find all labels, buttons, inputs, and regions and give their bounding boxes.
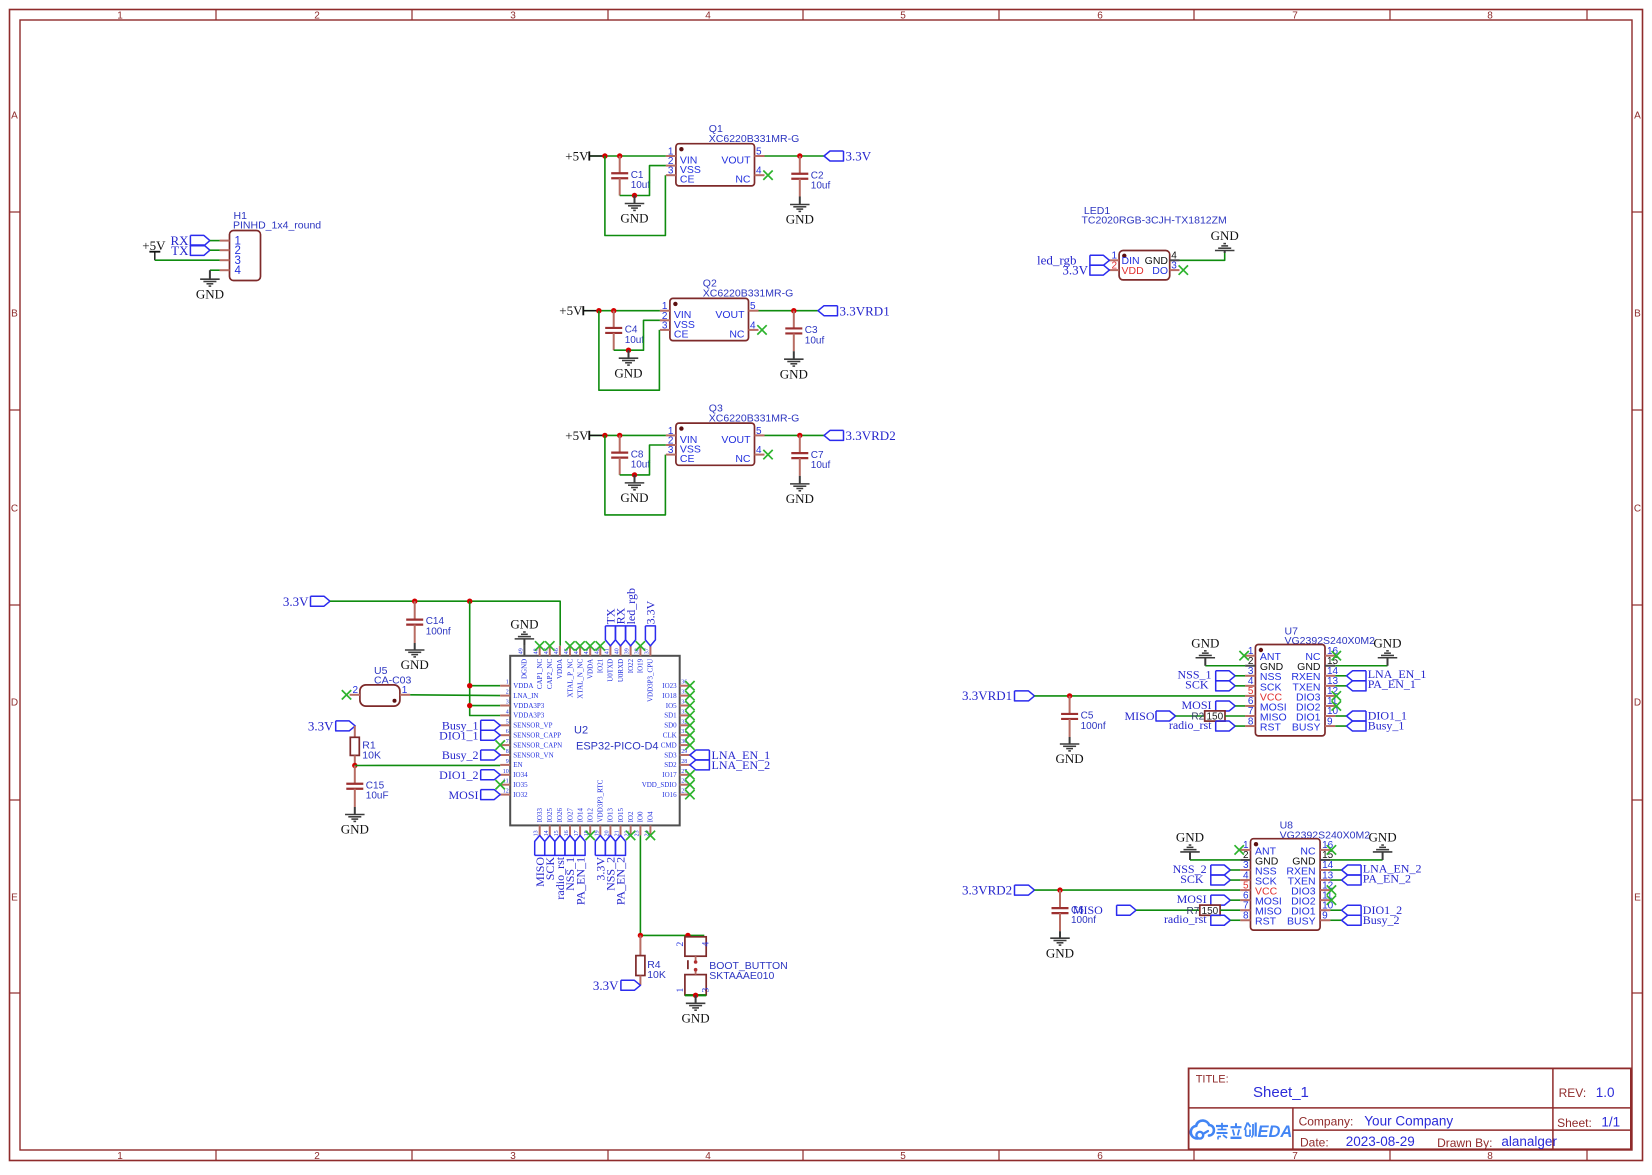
rgb led LED1 TC2020RGB-3CJH-TX1812ZM	[1082, 205, 1227, 280]
svg-text:MOSI: MOSI	[448, 788, 478, 802]
svg-text:GND: GND	[1373, 635, 1401, 650]
wire C8 to VSS riser	[620, 445, 666, 475]
svg-text:3: 3	[510, 1151, 516, 1162]
svg-text:VDD3P3_CPU: VDD3P3_CPU	[647, 659, 655, 702]
ground at U8 pin 15	[1369, 830, 1397, 860]
microcontroller U2 ESP32-PICO-D4	[500, 646, 690, 837]
svg-text:3: 3	[702, 988, 712, 993]
ground at U8 pin 2	[1176, 830, 1204, 860]
svg-text:D: D	[11, 698, 18, 709]
svg-text:10uf: 10uf	[631, 459, 651, 470]
svg-text:REV:: REV:	[1559, 1086, 1587, 1100]
svg-text:IO26: IO26	[556, 808, 564, 823]
svg-text:SKTAAAE010: SKTAAAE010	[709, 970, 774, 982]
capacitor C14 100nf	[406, 601, 451, 643]
svg-text:PA_EN_1: PA_EN_1	[1368, 677, 1416, 691]
no-connect U2 pin 48	[535, 641, 544, 650]
svg-text:SENSOR_VP: SENSOR_VP	[513, 722, 552, 730]
regulator Q2 XC6220B331MR-G	[660, 278, 793, 341]
no-connect U2 pin 33	[685, 711, 694, 720]
net flag TX at U2 top	[604, 608, 618, 646]
svg-text:radio_rst: radio_rst	[1164, 912, 1207, 926]
net flag PA_EN_2 at U8	[1342, 871, 1411, 885]
no-connect U2 pin 18	[586, 831, 595, 840]
junction C4 ground node	[626, 348, 631, 353]
net flag radio_rst at U2 bottom	[553, 835, 567, 899]
no-connect U2 pin 24	[646, 831, 655, 840]
svg-text:2023-08-29: 2023-08-29	[1346, 1134, 1415, 1149]
ground at C3	[780, 351, 808, 381]
capacitor C5 100nf	[1061, 696, 1106, 737]
svg-text:5: 5	[900, 1151, 906, 1162]
svg-text:BUSY: BUSY	[1287, 916, 1316, 928]
wire H1 pin 4 to ground	[210, 269, 220, 271]
net flag MISO at U8	[1073, 903, 1136, 917]
svg-text:100nf: 100nf	[426, 626, 451, 637]
junction VOUT / C7	[797, 433, 802, 438]
net flag MOSI at U7	[1181, 698, 1235, 712]
no-connect U2 pin 32	[685, 721, 694, 730]
ground at C14	[401, 643, 429, 672]
junction +5V / C4 at Q2	[611, 308, 616, 313]
net flag NSS_1 at U2 bottom	[563, 835, 577, 891]
svg-text:6: 6	[506, 729, 509, 735]
svg-text:GND: GND	[196, 286, 224, 301]
svg-text:PA_EN_2: PA_EN_2	[1363, 871, 1411, 885]
svg-text:3.3VRD2: 3.3VRD2	[846, 428, 896, 443]
no-connect U8 DIO2 pin 11	[1327, 895, 1336, 904]
svg-text:A: A	[11, 111, 18, 122]
capacitor C15 10uF	[346, 766, 388, 808]
svg-text:40: 40	[615, 648, 621, 654]
svg-text:10: 10	[503, 769, 509, 775]
svg-text:radio_rst: radio_rst	[1169, 718, 1212, 732]
svg-text:BUSY: BUSY	[1292, 721, 1321, 733]
svg-text:VDDA: VDDA	[513, 682, 533, 690]
wire radio_rst to RST	[1235, 725, 1245, 727]
ground at C2	[786, 197, 814, 227]
wire NSS_2 to NSS	[1230, 869, 1240, 871]
svg-text:SENSOR_CAPN: SENSOR_CAPN	[513, 741, 562, 749]
svg-text:GND: GND	[1369, 830, 1397, 845]
net flag led_rgb at U2 top	[624, 588, 638, 646]
svg-text:SD0: SD0	[664, 722, 677, 730]
resistor R2 150	[1191, 711, 1225, 723]
resistor R4 10K	[636, 935, 666, 985]
no-connect U2 pin 11	[496, 780, 505, 789]
svg-text:1: 1	[117, 1151, 123, 1162]
net flag DIO1_2 at U8	[1342, 903, 1403, 917]
ground at C6	[1046, 931, 1074, 960]
svg-text:IO21: IO21	[597, 658, 605, 673]
svg-text:IO4: IO4	[647, 811, 655, 822]
net flag Busy_2 at U2	[442, 748, 500, 762]
net flag SCK at U2 bottom	[543, 835, 557, 880]
no-connect U7 NC pin 16	[1332, 651, 1341, 660]
junction 3.3VRD1 / C5	[1067, 693, 1072, 698]
power flag +5V at Q2	[559, 303, 598, 318]
ground at C1	[620, 196, 648, 226]
svg-text:IO33: IO33	[536, 808, 544, 823]
svg-text:GND: GND	[401, 657, 429, 672]
svg-text:VDD_SDIO: VDD_SDIO	[642, 781, 677, 789]
svg-text:GND: GND	[1211, 228, 1239, 243]
svg-text:SCK: SCK	[1185, 678, 1209, 692]
svg-text:10K: 10K	[647, 969, 666, 981]
svg-text:GND: GND	[1046, 945, 1074, 960]
svg-text:10uf: 10uf	[631, 180, 651, 191]
wire +5V to H1 pin 3	[155, 259, 220, 261]
no-connect U2 pin 7	[496, 740, 505, 749]
svg-text:RST: RST	[1260, 721, 1282, 733]
svg-text:IO27: IO27	[566, 808, 574, 823]
svg-text:CE: CE	[674, 328, 689, 340]
ground at C7	[786, 476, 814, 506]
net flag MOSI at U2	[448, 788, 500, 802]
svg-text:37: 37	[644, 648, 650, 654]
svg-text:NC: NC	[735, 174, 751, 186]
svg-text:+5V: +5V	[559, 303, 583, 318]
svg-text:Sheet:: Sheet:	[1557, 1116, 1592, 1130]
ground at U7 pin 2	[1191, 635, 1219, 665]
wire SCK to U7	[1235, 685, 1245, 687]
power flag +5V at Q1	[565, 148, 604, 163]
ground at C5	[1056, 737, 1084, 766]
svg-text:IO15: IO15	[617, 808, 625, 823]
svg-text:IO17: IO17	[662, 771, 677, 779]
capacitor C7 10uf	[791, 435, 830, 476]
wire R7 to MISO pin 7	[1220, 909, 1240, 911]
svg-text:SENSOR_VN: SENSOR_VN	[513, 751, 553, 759]
net flag SCK at U8	[1180, 872, 1230, 886]
wire CE loop to +5V at Q1	[605, 156, 666, 236]
svg-text:CMD: CMD	[661, 741, 677, 749]
net flag NSS_1 at U7	[1177, 668, 1235, 682]
svg-text:DIO1_2: DIO1_2	[439, 768, 478, 782]
capacitor C8 10uf	[611, 435, 650, 475]
no-connect U2 pin 25	[685, 790, 694, 799]
wire U8 GND pin 15 to ground	[1330, 859, 1382, 861]
svg-text:led_rgb: led_rgb	[624, 588, 638, 624]
wire U7 to PA_EN_1	[1335, 685, 1346, 687]
svg-text:46: 46	[554, 648, 560, 654]
svg-text:DO: DO	[1152, 265, 1168, 277]
svg-text:10uf: 10uf	[805, 335, 825, 346]
svg-text:MOSI: MOSI	[1181, 698, 1211, 712]
net flag DIO1_2 at U2	[439, 768, 500, 782]
svg-text:GND: GND	[786, 491, 814, 506]
radio module U8 VG2392S240X0M2	[1240, 820, 1370, 930]
svg-text:7: 7	[1292, 1151, 1298, 1162]
svg-text:1: 1	[676, 988, 686, 993]
svg-text:U0RXD: U0RXD	[617, 659, 625, 682]
radio module U7 VG2392S240X0M2	[1245, 626, 1375, 736]
wire NSS_1 to NSS	[1235, 675, 1245, 677]
svg-text:MISO: MISO	[1124, 709, 1154, 723]
svg-text:ESP32-PICO-D4: ESP32-PICO-D4	[576, 741, 659, 753]
net flag 3.3VRD2	[824, 428, 896, 443]
svg-text:SCK: SCK	[1180, 872, 1204, 886]
junction +5V / CE loop at Q2	[596, 308, 601, 313]
net flag 3.3VRD2	[962, 882, 1035, 897]
ground at C4	[614, 350, 642, 380]
capacitor C1 10uf	[611, 156, 650, 196]
svg-text:100nf: 100nf	[1081, 721, 1106, 732]
svg-text:3: 3	[1171, 260, 1177, 271]
svg-text:1/1: 1/1	[1601, 1115, 1620, 1130]
svg-text:1: 1	[506, 680, 509, 686]
no-connect U2 pin 43	[586, 641, 595, 650]
resistor R7 150	[1187, 905, 1221, 917]
ground at U2 DGND pin 49	[510, 617, 538, 646]
svg-text:3.3V: 3.3V	[846, 149, 872, 164]
svg-text:CE: CE	[680, 174, 695, 186]
wire ground to U8 GND pin 2	[1190, 859, 1240, 861]
svg-text:IO34: IO34	[513, 771, 528, 779]
ground at LED1	[1211, 228, 1239, 253]
svg-text:GND: GND	[510, 617, 538, 632]
no-connect on NC pin 4 of Q2	[757, 325, 766, 334]
svg-text:VDDA3P3: VDDA3P3	[513, 712, 545, 720]
svg-text:5: 5	[750, 301, 756, 312]
svg-text:49: 49	[518, 648, 524, 654]
wire C1 to VSS riser	[620, 166, 666, 196]
junction 3.3V rail / VDDA riser	[467, 599, 472, 604]
svg-text:Drawn By:: Drawn By:	[1437, 1136, 1492, 1150]
svg-text:4: 4	[506, 709, 509, 715]
junction boot button pin 2	[685, 933, 690, 938]
svg-text:E: E	[11, 893, 18, 904]
svg-text:E: E	[1634, 893, 1641, 904]
resistor R1 10K	[350, 726, 381, 766]
connector H1 PINHD_1x4_round	[220, 210, 322, 281]
svg-text:VDD: VDD	[1122, 265, 1145, 277]
junction VDDA riser pin 3	[467, 703, 472, 708]
net flag 3.3VRD1	[962, 688, 1035, 703]
svg-text:8: 8	[1248, 716, 1254, 727]
net flag NSS_2 at U8	[1173, 862, 1231, 876]
svg-text:IO25: IO25	[546, 808, 554, 823]
svg-text:LNA_IN: LNA_IN	[513, 692, 538, 700]
net flag SCK at U7	[1185, 678, 1235, 692]
svg-text:1: 1	[402, 685, 408, 696]
svg-text:2: 2	[1111, 260, 1117, 271]
no-connect U2 pin 35	[685, 691, 694, 700]
no-connect U2 pin 42	[596, 641, 605, 650]
net flag 3.3V at U2 top	[644, 600, 658, 646]
net flag 3.3V	[824, 149, 872, 164]
svg-text:IO13: IO13	[607, 808, 615, 823]
svg-text:5: 5	[900, 11, 906, 22]
svg-text:7: 7	[1292, 11, 1298, 22]
no-connect U2 pin 22	[626, 831, 635, 840]
svg-text:SD2: SD2	[664, 761, 677, 769]
svg-text:C: C	[1634, 504, 1641, 515]
junction C8 ground node	[632, 472, 637, 477]
svg-text:4: 4	[756, 445, 762, 456]
wire TX to H1 pin 2	[210, 249, 220, 251]
svg-text:3.3VRD2: 3.3VRD2	[962, 882, 1012, 897]
svg-text:1.0: 1.0	[1596, 1085, 1615, 1100]
net flag radio_rst at U7	[1169, 718, 1235, 732]
svg-text:GND: GND	[1176, 830, 1204, 845]
svg-text:NC: NC	[735, 453, 751, 465]
svg-text:2: 2	[676, 942, 686, 947]
svg-text:alanalger: alanalger	[1501, 1134, 1557, 1149]
svg-text:8: 8	[506, 749, 509, 755]
net flag Busy_2 at U8	[1342, 913, 1400, 927]
no-connect U8 NC pin 16	[1327, 845, 1336, 854]
junction 3.3VRD2 / C6	[1057, 887, 1062, 892]
net flag 3.3VRD1	[818, 303, 890, 318]
svg-text:5: 5	[506, 719, 509, 725]
wire VDDA riser to U2 pins 1/3/4	[470, 601, 501, 715]
net flag 3.3V at U2 bottom	[594, 835, 608, 880]
capacitor C4 10uf	[605, 311, 644, 351]
junction IO0 / R4	[638, 933, 643, 938]
wire MISO to R7	[1136, 909, 1200, 911]
wire R2 to MISO pin 7	[1225, 715, 1245, 717]
net flag DIO1_1 at U7	[1347, 709, 1408, 723]
svg-text:MISO: MISO	[1073, 903, 1103, 917]
capacitor C2 10uf	[791, 156, 830, 197]
svg-text:CLK: CLK	[663, 732, 677, 740]
net flag Busy_1 at U2	[442, 719, 500, 733]
svg-text:9: 9	[1322, 910, 1328, 921]
push button BOOT_BUTTON SKTAAAE010	[676, 937, 788, 995]
wire CE loop to +5V at Q2	[599, 311, 660, 391]
svg-text:6: 6	[1097, 1151, 1103, 1162]
wire SCK to U8	[1230, 879, 1240, 881]
net flag MISO at U2 bottom	[533, 835, 547, 887]
svg-text:10uF: 10uF	[366, 791, 389, 802]
svg-text:Busy_1: Busy_1	[1368, 719, 1405, 733]
wire MISO to R2	[1176, 715, 1205, 717]
svg-text:CAP1_NC: CAP1_NC	[536, 658, 544, 689]
svg-text:IO14: IO14	[576, 808, 584, 823]
no-connect U8 DIO3 pin 12	[1327, 885, 1336, 894]
junction +5V / C8 at Q3	[617, 433, 622, 438]
no-connect U2 pin 30	[685, 740, 694, 749]
svg-text:TC2020RGB-3CJH-TX1812ZM: TC2020RGB-3CJH-TX1812ZM	[1082, 215, 1227, 227]
svg-text:C: C	[11, 504, 18, 515]
svg-text:6: 6	[1097, 11, 1103, 22]
net flag MISO at U7	[1124, 709, 1175, 723]
net flag 3.3V at R4	[593, 978, 641, 993]
svg-text:VDD3P3_RTC: VDD3P3_RTC	[597, 779, 605, 822]
svg-text:3.3VRD1: 3.3VRD1	[840, 303, 890, 318]
net flag LNA_EN_2 at U2	[690, 758, 770, 772]
svg-text:28: 28	[681, 759, 687, 765]
wire U8 to PA_EN_2	[1330, 879, 1341, 881]
svg-text:10uf: 10uf	[811, 181, 831, 192]
net flag 3.3V at LED1	[1062, 263, 1109, 278]
ground at C8	[620, 475, 648, 505]
wire radio_rst to RST	[1230, 919, 1240, 921]
svg-text:9: 9	[506, 759, 509, 765]
svg-text:RST: RST	[1255, 916, 1277, 928]
junction boot button ground	[693, 993, 698, 998]
svg-text:IO35: IO35	[513, 781, 528, 789]
net flag TX	[171, 243, 210, 258]
regulator Q3 XC6220B331MR-G	[666, 402, 799, 465]
no-connect U2 pin 34	[685, 701, 694, 710]
wire +5V rail to VIN Q2	[584, 310, 660, 312]
wire U8 to Busy_2	[1330, 919, 1341, 921]
svg-text:3: 3	[506, 700, 509, 706]
svg-text:IO19: IO19	[637, 658, 645, 673]
svg-text:8: 8	[1487, 11, 1493, 22]
svg-text:3.3V: 3.3V	[644, 600, 658, 624]
svg-text:PA_EN_2: PA_EN_2	[614, 857, 628, 905]
wire C4 to VSS riser	[614, 320, 660, 350]
junction VOUT / C3	[791, 308, 796, 313]
junction 3.3V rail / C14	[412, 599, 417, 604]
svg-text:5: 5	[756, 147, 762, 158]
net flag LNA_EN_1 at U2	[690, 748, 770, 762]
power flag +5V at H1	[142, 238, 166, 260]
net flag LNA_EN_1 at U7	[1347, 667, 1427, 681]
svg-text:Your Company: Your Company	[1364, 1113, 1453, 1128]
capacitor C3 10uf	[785, 311, 824, 352]
net flag 3.3V rail	[283, 594, 330, 609]
svg-text:VDDA: VDDA	[556, 659, 564, 679]
svg-text:B: B	[11, 309, 18, 320]
junction R1 / C15 / EN	[352, 763, 357, 768]
svg-text:9: 9	[1327, 716, 1333, 727]
svg-text:U2: U2	[574, 725, 588, 737]
junction +5V / C1 at Q1	[617, 153, 622, 158]
wire RX to H1 pin 1	[210, 240, 220, 242]
wire CE loop to +5V at Q3	[605, 435, 666, 515]
svg-text:4: 4	[235, 265, 242, 277]
junction +5V / CE loop at Q1	[602, 153, 607, 158]
wire U7 to Busy_1	[1335, 725, 1346, 727]
no-connect U2 pin 45	[565, 641, 574, 650]
wire +5V rail to VIN Q3	[590, 434, 666, 436]
svg-text:XTAL_N_NC: XTAL_N_NC	[576, 658, 584, 698]
junction +5V / CE loop at Q3	[602, 433, 607, 438]
svg-text:3: 3	[668, 445, 674, 456]
no-connect on NC pin 4 of Q3	[763, 450, 772, 459]
no-connect U7 DIO3 pin 12	[1332, 691, 1341, 700]
svg-text:A: A	[1634, 111, 1641, 122]
svg-text:3.3V: 3.3V	[283, 594, 309, 609]
svg-text:Date:: Date:	[1300, 1136, 1329, 1150]
wire LED1 GND pin 4 to ground	[1180, 253, 1225, 260]
wire MOSI to U8	[1230, 899, 1240, 901]
JLCEDA logo	[1191, 1121, 1293, 1141]
svg-text:VDDA3P3: VDDA3P3	[513, 702, 545, 710]
svg-text:+5V: +5V	[142, 238, 166, 253]
ground at U7 pin 15	[1373, 635, 1401, 665]
net flag RX	[170, 233, 209, 248]
svg-text:3: 3	[510, 11, 516, 22]
svg-text:IO32: IO32	[513, 791, 528, 799]
wire 3.3V rail	[330, 601, 560, 646]
net flag DIO1_1 at U2	[439, 728, 500, 742]
no-connect on U5 pin 2	[342, 690, 351, 699]
svg-text:GND: GND	[1056, 751, 1084, 766]
svg-text:10uf: 10uf	[625, 335, 645, 346]
svg-text:CAP2_NC: CAP2_NC	[546, 658, 554, 689]
svg-text:VDDA: VDDA	[587, 659, 595, 679]
net flag Busy_1 at U7	[1347, 719, 1405, 733]
svg-text:1: 1	[117, 11, 123, 22]
svg-text:EN: EN	[513, 761, 522, 769]
filter U5 CA-C03	[350, 665, 412, 706]
svg-text:NC: NC	[729, 328, 745, 340]
